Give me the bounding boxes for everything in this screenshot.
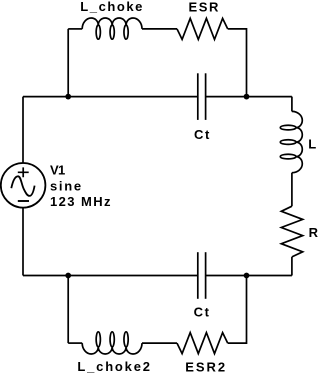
- capacitor Ct top: left plate: [197, 73, 199, 120]
- wire: top branch horizontal into L_choke: [68, 28, 82, 30]
- wire: top main horizontal line right of Ct: [206, 96, 292, 98]
- wire: bottom branch horizontal into L_choke2: [68, 342, 82, 344]
- inductor L_choke: [82, 18, 142, 39]
- svg-text:V1: V1: [50, 163, 65, 178]
- wire: left vertical top (main top line to source): [22, 97, 24, 164]
- capacitor Ct bottom: left plate: [197, 252, 199, 299]
- wire: right vertical from top line to inductor L: [291, 97, 293, 112]
- sine wave inside V1: [11, 176, 34, 196]
- wire: top branch right + vertical down to junction: [228, 29, 247, 97]
- svg-text:ESR2: ESR2: [185, 360, 227, 375]
- svg-text:sine: sine: [50, 179, 83, 194]
- junction dot bottom-left: [65, 273, 71, 279]
- svg-text:L_choke: L_choke: [80, 0, 144, 14]
- junction dot top-left: [65, 94, 71, 100]
- junction dot top-right: [244, 94, 250, 100]
- wire: bottom main horizontal line left of Ct: [23, 275, 198, 277]
- resistor ESR2: [177, 333, 228, 354]
- svg-text:R: R: [309, 225, 318, 240]
- resistor ESR: [177, 18, 228, 39]
- wire: bottom branch left vertical: [67, 276, 69, 344]
- svg-text:ESR: ESR: [189, 0, 221, 14]
- svg-text:L: L: [308, 137, 316, 152]
- wire: top main horizontal line left of Ct: [23, 96, 198, 98]
- inductor L_choke2: [82, 332, 142, 354]
- inductor L: [280, 111, 302, 172]
- plus sign in V1: [18, 167, 29, 177]
- svg-text:123 MHz: 123 MHz: [50, 194, 112, 209]
- wire: between L_choke2 and ESR2: [142, 342, 177, 344]
- svg-text:L_choke2: L_choke2: [77, 359, 151, 374]
- svg-text:Ct: Ct: [194, 127, 211, 142]
- svg-text:Ct: Ct: [194, 305, 211, 320]
- junction dot bottom-right: [244, 273, 250, 279]
- voltage source V1 circle: [1, 163, 46, 208]
- capacitor Ct bottom: right plate: [205, 252, 207, 299]
- wire: top branch left vertical: [67, 29, 69, 97]
- wire: left vertical bottom (source to main bottom line): [22, 208, 24, 276]
- wire: bottom main horizontal line right of Ct: [206, 275, 292, 277]
- resistor R: [281, 206, 302, 257]
- wire: bottom branch right + vertical up to junction: [228, 276, 247, 344]
- minus sign in V1: [18, 200, 29, 202]
- wire: right vertical between L and R: [291, 173, 293, 207]
- wire: right vertical from R to bottom line: [291, 257, 293, 276]
- wire: between L_choke and ESR: [142, 28, 177, 30]
- capacitor Ct top: right plate: [205, 73, 207, 120]
